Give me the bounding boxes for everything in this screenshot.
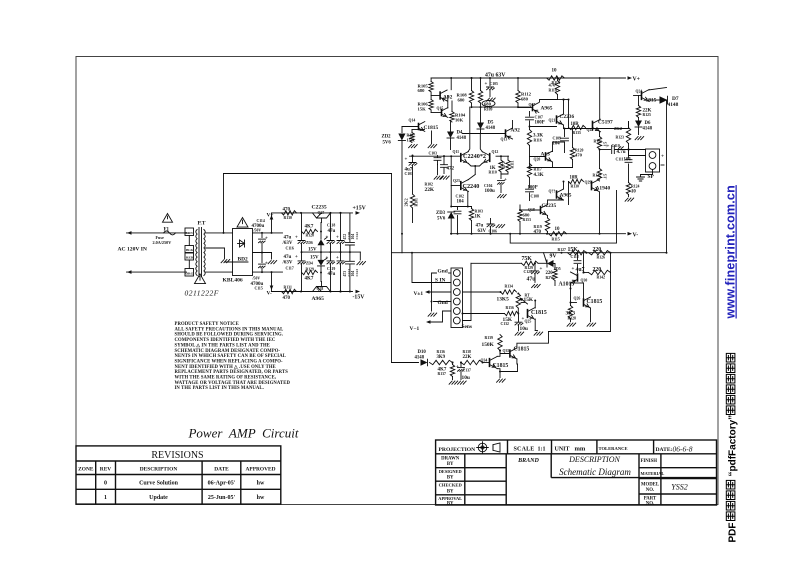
capacitor column x340 upper xyxy=(340,213,342,240)
svg-text:C2235: C2235 xyxy=(542,203,557,209)
svg-text:C108: C108 xyxy=(531,195,540,199)
svg-text:22K: 22K xyxy=(463,355,472,360)
resistor R111 472 xyxy=(506,160,510,172)
transistor Q34 C1815 xyxy=(483,362,490,364)
ground gnd tie xyxy=(428,313,437,316)
wire Q25 collector xyxy=(534,301,536,309)
svg-text:/50V: /50V xyxy=(253,229,262,233)
svg-text:+: + xyxy=(540,267,543,272)
wire bridge to caps bottom xyxy=(253,271,283,273)
svg-text:Q23: Q23 xyxy=(453,179,460,183)
bridge rectifier BD2 xyxy=(233,229,253,276)
zener ZD6 15V xyxy=(320,232,322,240)
transistor pair Q21 C2240*2 xyxy=(460,153,462,162)
svg-text:+15V: +15V xyxy=(353,206,367,212)
svg-text:680: 680 xyxy=(418,88,426,93)
arrow V- xyxy=(628,232,633,236)
resistor R116 3.3K xyxy=(527,130,531,146)
grounds under 472 xyxy=(434,176,443,179)
watermark pdfFactory xyxy=(724,185,739,542)
wire secondary center tap xyxy=(206,248,225,259)
svg-text:C137: C137 xyxy=(463,369,472,373)
svg-text:SHOULD BE FOLLOWED DURING SERV: SHOULD BE FOLLOWED DURING SERVICING. xyxy=(175,333,284,338)
capacitor C104 100u xyxy=(500,174,502,179)
svg-text:+: + xyxy=(295,236,298,241)
wire Q21 collector xyxy=(563,100,565,115)
resistor R107 15K xyxy=(411,130,413,133)
svg-text:470: 470 xyxy=(283,208,291,213)
ground right of C106 xyxy=(496,225,505,228)
svg-text:47u 63V: 47u 63V xyxy=(485,73,506,79)
svg-text:R110: R110 xyxy=(489,170,497,174)
wire base row right xyxy=(496,155,509,157)
wire sens vertical xyxy=(463,263,472,320)
svg-text:680: 680 xyxy=(484,102,492,107)
svg-text:AC 120V IN: AC 120V IN xyxy=(118,247,147,253)
svg-text:R111: R111 xyxy=(511,160,515,168)
resistor R135 10R xyxy=(568,100,570,128)
svg-text:A92: A92 xyxy=(511,128,521,134)
svg-text:R130: R130 xyxy=(284,216,293,220)
svg-text:REV: REV xyxy=(100,467,111,473)
svg-text:C5197: C5197 xyxy=(598,120,613,126)
svg-text:V±1: V±1 xyxy=(414,291,424,297)
capacitor ZD3 bypass xyxy=(457,207,459,210)
diode D7 4148 xyxy=(649,99,660,101)
svg-text:R136: R136 xyxy=(437,350,446,354)
svg-text:15K: 15K xyxy=(407,138,416,143)
svg-text:R109: R109 xyxy=(484,107,493,111)
svg-text:R135: R135 xyxy=(573,131,582,135)
svg-text:47u: 47u xyxy=(476,224,484,229)
svg-text:Q20: Q20 xyxy=(534,158,541,162)
svg-text:Q14: Q14 xyxy=(409,119,416,123)
svg-text:R124: R124 xyxy=(631,185,640,189)
svg-text:2K2: 2K2 xyxy=(404,198,409,207)
resistor R105 680 xyxy=(430,78,432,82)
warning triangle above bridge xyxy=(237,218,248,228)
svg-text:22K: 22K xyxy=(425,187,435,193)
resistor R130 470 xyxy=(282,211,297,215)
svg-text:S IN: S IN xyxy=(435,278,445,284)
wire pin3 to R134 xyxy=(463,291,501,293)
svg-text:BRAND: BRAND xyxy=(517,458,539,464)
svg-text:470: 470 xyxy=(534,230,542,235)
diode D4 4148 xyxy=(450,122,452,132)
svg-text:ZD4: ZD4 xyxy=(306,261,313,265)
svg-text:75K: 75K xyxy=(522,256,533,262)
wire pin5 to R156 xyxy=(463,313,505,315)
svg-text:+: + xyxy=(265,262,268,267)
wire Q26 base xyxy=(571,302,577,304)
wire S IN path xyxy=(392,252,403,254)
svg-text:2.0A/250V: 2.0A/250V xyxy=(153,240,172,245)
svg-text:hw: hw xyxy=(257,495,265,501)
svg-text:V+: V+ xyxy=(633,77,641,83)
svg-text:MATERIAL: MATERIAL xyxy=(641,471,665,476)
svg-text:680: 680 xyxy=(523,213,531,218)
svg-text:mm: mm xyxy=(575,446,586,453)
svg-text:C110: C110 xyxy=(612,144,620,148)
svg-text:+: + xyxy=(336,236,339,241)
svg-text:+: + xyxy=(661,154,664,160)
svg-text:Q34: Q34 xyxy=(481,359,488,363)
capacitor C119 47u xyxy=(330,252,332,261)
svg-text:104: 104 xyxy=(457,200,465,205)
resistor R121 .15 xyxy=(599,131,601,137)
svg-text:REVISIONS: REVISIONS xyxy=(151,450,203,461)
svg-text:10u: 10u xyxy=(462,375,470,381)
svg-text:C1815: C1815 xyxy=(531,310,547,316)
svg-text:A1015: A1015 xyxy=(559,282,575,288)
svg-text:R128: R128 xyxy=(568,317,577,321)
resistor R104 10K xyxy=(451,101,453,112)
resistor R128b 3K3 xyxy=(570,283,572,306)
svg-text:680: 680 xyxy=(521,97,529,102)
svg-text:.15: .15 xyxy=(603,173,608,179)
svg-text:15K: 15K xyxy=(418,107,427,112)
transistor Q35 C1815 xyxy=(509,349,511,357)
wire 75K node xyxy=(538,262,547,264)
svg-text:BRN: BRN xyxy=(186,231,194,235)
svg-text:C114: C114 xyxy=(257,219,265,223)
svg-text:C1815: C1815 xyxy=(424,125,439,131)
diode D6 4148 xyxy=(638,118,640,121)
svg-text:C117: C117 xyxy=(286,267,294,271)
svg-text:KBL406: KBL406 xyxy=(223,278,243,284)
svg-text:100P: 100P xyxy=(528,186,538,191)
svg-text:ORG: ORG xyxy=(186,272,194,276)
svg-text:BLK: BLK xyxy=(186,248,194,252)
svg-text:C111: C111 xyxy=(616,158,624,162)
svg-text:+: + xyxy=(326,256,329,261)
svg-text:1815: 1815 xyxy=(646,98,657,104)
wire x223 vertical xyxy=(223,174,225,233)
svg-text:SYMBOL △ IN THE PARTS LIST AND: SYMBOL △ IN THE PARTS LIST AND THE xyxy=(175,342,270,348)
svg-text:0211222F: 0211222F xyxy=(185,289,219,298)
capacitor C108 100P xyxy=(529,178,531,188)
wire V+ rail xyxy=(431,77,625,79)
svg-text:R114: R114 xyxy=(552,81,560,85)
svg-text:0: 0 xyxy=(104,481,107,487)
svg-text:BY: BY xyxy=(447,501,454,506)
svg-text:1: 1 xyxy=(104,495,107,501)
wire +15V rail xyxy=(272,212,353,214)
title block xyxy=(436,440,717,505)
svg-text:/50V: /50V xyxy=(252,277,261,281)
svg-text:A965: A965 xyxy=(541,106,553,112)
svg-text:R126: R126 xyxy=(597,256,606,260)
svg-text:13K5: 13K5 xyxy=(497,297,510,303)
wire emitters tie xyxy=(500,364,518,372)
resistor R120 470 xyxy=(572,129,574,148)
svg-text:APPROVED: APPROVED xyxy=(246,467,276,473)
wire V- rail xyxy=(451,233,626,235)
wire y252 rail xyxy=(402,252,667,254)
resistor R114 10 xyxy=(547,76,565,80)
svg-text:-15V: -15V xyxy=(353,295,366,301)
svg-text:Q??: Q?? xyxy=(549,190,556,194)
svg-text:+: + xyxy=(572,267,575,272)
svg-text:10u: 10u xyxy=(520,326,528,332)
svg-text:+: + xyxy=(336,256,339,261)
svg-text:10: 10 xyxy=(552,69,558,74)
svg-text:C122: C122 xyxy=(355,232,359,240)
svg-text:NO.: NO. xyxy=(646,501,654,506)
svg-text:R115: R115 xyxy=(552,238,560,242)
wire box top y173 xyxy=(224,173,392,175)
svg-text:+: + xyxy=(405,158,408,163)
svg-text:Q28: Q28 xyxy=(317,287,324,291)
capacitor column x340 lower xyxy=(340,252,342,261)
svg-text:R134: R134 xyxy=(505,285,514,289)
svg-text:R125: R125 xyxy=(643,113,652,117)
wire AC line bottom xyxy=(127,271,187,273)
svg-text:C132: C132 xyxy=(501,322,510,326)
svg-text:R137: R137 xyxy=(438,372,447,376)
svg-text:C115: C115 xyxy=(255,287,263,291)
svg-text:47u: 47u xyxy=(328,229,336,234)
wire AC line top xyxy=(127,232,187,234)
svg-text:Q29: Q29 xyxy=(585,181,592,185)
capacitor C137 10u xyxy=(460,363,462,367)
svg-text:APPROVAL: APPROVAL xyxy=(438,496,462,501)
ground under D6 xyxy=(635,137,644,140)
svg-text:RED: RED xyxy=(186,256,194,260)
svg-text:Gnd: Gnd xyxy=(438,268,448,274)
svg-text:SIGNIFICANCE WHEN REPLACING A: SIGNIFICANCE WHEN REPLACING A COMPO- xyxy=(175,359,284,364)
svg-text:4.3K: 4.3K xyxy=(534,173,544,178)
transistor Q?? A965 lower xyxy=(556,190,558,198)
svg-text:C102: C102 xyxy=(456,195,465,199)
resistor R106 15K xyxy=(429,100,433,111)
svg-text:Curve Solution: Curve Solution xyxy=(139,481,179,487)
svg-text:CHECKED: CHECKED xyxy=(439,483,463,488)
wire D10 chain xyxy=(392,362,419,364)
svg-text:ZONE: ZONE xyxy=(78,467,94,473)
svg-text:10R: 10R xyxy=(570,176,579,181)
svg-text:“pdfFactory”: “pdfFactory” xyxy=(728,415,739,477)
svg-text:ZD2: ZD2 xyxy=(382,135,392,140)
resistor R117 4.3K xyxy=(529,157,531,164)
svg-text:472: 472 xyxy=(501,161,506,169)
svg-text:+: + xyxy=(326,236,329,241)
svg-text:C106: C106 xyxy=(489,230,498,234)
resistor R119 470 xyxy=(545,218,549,232)
resistor R115 10 xyxy=(549,232,567,236)
svg-text:C105: C105 xyxy=(490,82,499,86)
border frame xyxy=(76,57,718,505)
wire q25 base row xyxy=(521,302,525,304)
wire base row y133 xyxy=(463,133,506,135)
connector J1 xyxy=(451,268,463,328)
fuse F1 xyxy=(163,214,173,223)
svg-text:/63V: /63V xyxy=(282,241,293,246)
capacitor C107 100P xyxy=(529,112,531,117)
svg-text:BY: BY xyxy=(447,462,454,467)
transistor Q23 A1940 xyxy=(591,181,593,191)
resistor R129 75K xyxy=(471,262,522,264)
svg-text:D10: D10 xyxy=(418,350,427,355)
capacitor C110 4.7u xyxy=(612,146,615,154)
svg-text:470: 470 xyxy=(283,296,291,301)
svg-text:V-: V- xyxy=(633,233,639,239)
resistor R110 1K xyxy=(499,160,503,172)
svg-text:63V: 63V xyxy=(478,229,487,234)
svg-text:FINISH: FINISH xyxy=(641,459,658,464)
svg-text:R138: R138 xyxy=(463,350,472,354)
svg-text:C116: C116 xyxy=(286,247,294,251)
resistor R118 470 xyxy=(557,78,559,81)
wire gnd tie xyxy=(432,273,437,311)
svg-text:R122: R122 xyxy=(593,174,602,178)
svg-text:COMPONENTS IDENTIFIED WITH THE: COMPONENTS IDENTIFIED WITH THE IEC xyxy=(175,338,276,343)
svg-text:+: + xyxy=(607,145,610,150)
wire return loop y242.6 xyxy=(510,191,616,244)
svg-text:47u: 47u xyxy=(284,255,292,260)
resistor R153 680 xyxy=(520,209,541,211)
svg-text:DESIGNED: DESIGNED xyxy=(439,469,462,474)
svg-text:Q15: Q15 xyxy=(437,107,444,111)
svg-text:UNIT: UNIT xyxy=(555,447,570,453)
svg-text:www.fineprint.com.cn: www.fineprint.com.cn xyxy=(724,185,738,319)
arrow V+ xyxy=(628,76,633,80)
wire Q21 emitter to 2K2 xyxy=(564,122,629,129)
svg-text:C118: C118 xyxy=(327,224,335,228)
wire rail2 xyxy=(471,106,530,108)
svg-text:47u: 47u xyxy=(527,277,537,283)
ground mid rail right xyxy=(359,252,361,260)
svg-text:+: + xyxy=(295,255,298,260)
diode D5 4148 xyxy=(480,107,482,122)
svg-text:BY: BY xyxy=(447,489,454,494)
svg-text:D5: D5 xyxy=(488,121,494,126)
wire output to SP xyxy=(615,149,646,151)
speaker terminal SP xyxy=(646,149,660,172)
svg-text:+: + xyxy=(485,82,488,87)
svg-text:R118: R118 xyxy=(549,89,557,93)
resistor R108 680 xyxy=(471,78,473,91)
capacitor C118 47u xyxy=(330,213,332,240)
svg-text:R142: R142 xyxy=(597,276,606,280)
svg-text:104: 104 xyxy=(624,158,632,163)
svg-text:10: 10 xyxy=(555,227,561,232)
wire bridge to caps top xyxy=(253,232,283,234)
svg-text:DATE: DATE xyxy=(214,467,229,473)
svg-text:R139: R139 xyxy=(485,336,494,340)
svg-text:4148: 4148 xyxy=(486,126,496,131)
wire pin5 V-1 xyxy=(430,311,452,322)
transistor Q15 xyxy=(441,109,443,117)
ground under Q34 xyxy=(497,379,506,382)
svg-text:Q21: Q21 xyxy=(549,119,556,123)
svg-text:ZD3: ZD3 xyxy=(436,211,446,216)
svg-text:10: 10 xyxy=(631,190,636,195)
warning triangle under transformer xyxy=(195,274,206,284)
svg-text:C1815: C1815 xyxy=(514,347,530,353)
capacitor C101 4u7 xyxy=(412,156,414,162)
wire x391 feedback xyxy=(391,174,393,363)
wire mid rail regs xyxy=(302,251,361,253)
svg-text:10K: 10K xyxy=(455,118,464,123)
resistor R122 .15 xyxy=(599,150,601,169)
svg-text:C2235: C2235 xyxy=(312,205,327,211)
resistor R101 2K2 xyxy=(410,194,414,208)
svg-text:R121: R121 xyxy=(594,140,603,144)
svg-text:15V: 15V xyxy=(310,256,319,261)
svg-text:R102: R102 xyxy=(425,183,434,187)
svg-text:Q25: Q25 xyxy=(525,320,532,324)
transistor Q24 C1815 top xyxy=(641,91,643,100)
svg-text:SCALE: SCALE xyxy=(514,447,535,453)
resistor R124 10 xyxy=(626,183,630,195)
resistor R131 470 xyxy=(282,289,297,293)
svg-text:C119: C119 xyxy=(327,267,335,271)
transistor Q21 C2236 xyxy=(556,115,558,123)
svg-text:TOLERANCE: TOLERANCE xyxy=(599,446,628,451)
svg-text:V−1: V−1 xyxy=(410,326,420,332)
transistor Q20 A13 xyxy=(545,152,547,160)
ground under R107 xyxy=(409,145,418,148)
grounds under protection xyxy=(567,323,576,326)
svg-text:Sens: Sens xyxy=(462,324,473,330)
transistor Q28 A965 xyxy=(313,287,331,292)
svg-text:10R: 10R xyxy=(571,122,580,127)
ground under C132 xyxy=(515,332,524,335)
svg-text:C2236: C2236 xyxy=(560,114,575,120)
resistor R125 22K xyxy=(634,95,642,97)
svg-text:47u: 47u xyxy=(328,272,336,277)
transformer secondary xyxy=(204,230,205,276)
svg-text:3K9: 3K9 xyxy=(437,355,446,360)
svg-text:REPLACEMENT PARTS DESIGNATED,: REPLACEMENT PARTS DESIGNATED, OR PARTS xyxy=(175,370,289,375)
chassis ground SP- xyxy=(641,170,653,177)
capacitor C113 104 xyxy=(628,150,630,159)
ground under R137 xyxy=(449,381,458,384)
wire Q17 emitter row xyxy=(540,100,558,103)
svg-text:2K2: 2K2 xyxy=(614,126,623,131)
transistor Q25 C1815 xyxy=(527,309,529,318)
transistor Q16 A92 xyxy=(439,91,441,99)
transistor Q26 C1815 xyxy=(583,298,585,306)
svg-text:A965: A965 xyxy=(312,296,325,302)
svg-text:/63V: /63V xyxy=(282,261,293,266)
resistor R103 1K xyxy=(471,207,473,209)
svg-text:06-6-8: 06-6-8 xyxy=(673,445,693,454)
svg-text:PRODUCT SAFETY NOTICE: PRODUCT SAFETY NOTICE xyxy=(175,322,239,327)
svg-text:5V6: 5V6 xyxy=(383,141,392,146)
wire R142 right xyxy=(549,273,611,332)
svg-text:V+: V+ xyxy=(267,213,274,219)
revisions table xyxy=(76,446,281,504)
ground under R124 xyxy=(625,198,634,201)
svg-text:Q11: Q11 xyxy=(453,150,460,154)
svg-text:R127: R127 xyxy=(558,248,567,252)
node V+ bridge xyxy=(271,219,273,233)
svg-text:ZD6: ZD6 xyxy=(306,241,313,245)
svg-text:4K7: 4K7 xyxy=(305,277,314,282)
svg-text:R123: R123 xyxy=(616,136,625,140)
svg-text:WITH THE SAME RATING OF RESIST: WITH THE SAME RATING OF RESISTANCE, xyxy=(175,376,277,381)
svg-text:Q24: Q24 xyxy=(636,90,643,94)
svg-text:47u: 47u xyxy=(284,236,292,241)
svg-text:DRAWN: DRAWN xyxy=(441,456,460,461)
svg-text:+: + xyxy=(504,178,507,183)
svg-text:BY: BY xyxy=(447,476,454,481)
node V- bridge xyxy=(271,272,273,286)
wire pair collectors xyxy=(468,107,470,152)
arrow +15V xyxy=(356,211,361,215)
